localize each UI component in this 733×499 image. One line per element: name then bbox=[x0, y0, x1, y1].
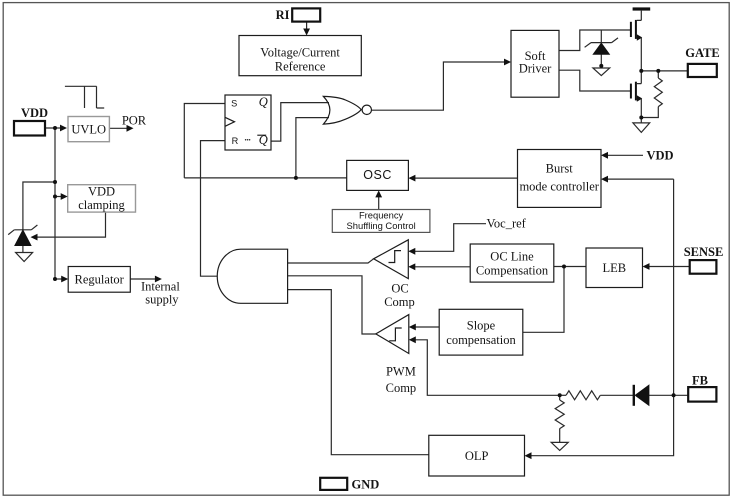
svg-text:GATE: GATE bbox=[685, 46, 720, 60]
svg-text:VDD: VDD bbox=[646, 148, 673, 162]
svg-text:Compensation: Compensation bbox=[476, 263, 549, 277]
svg-text:R: R bbox=[232, 136, 239, 146]
svg-text:POR: POR bbox=[122, 114, 147, 128]
svg-text:Regulator: Regulator bbox=[75, 273, 125, 287]
svg-text:Internal: Internal bbox=[141, 280, 180, 294]
svg-text:OC: OC bbox=[391, 282, 408, 296]
svg-text:VDD: VDD bbox=[21, 106, 48, 120]
svg-text:supply: supply bbox=[145, 293, 179, 307]
svg-text:VDD: VDD bbox=[88, 185, 115, 199]
svg-text:SENSE: SENSE bbox=[684, 245, 724, 259]
svg-text:Voc_ref: Voc_ref bbox=[487, 217, 527, 231]
svg-text:PWM: PWM bbox=[386, 365, 416, 379]
svg-text:compensation: compensation bbox=[446, 333, 516, 347]
svg-text:Frequency: Frequency bbox=[359, 210, 404, 221]
svg-text:FB: FB bbox=[692, 373, 708, 387]
svg-text:Shuffling Control: Shuffling Control bbox=[347, 220, 416, 231]
svg-text:Driver: Driver bbox=[519, 62, 552, 76]
svg-text:Comp: Comp bbox=[384, 295, 415, 309]
svg-text:mode controller: mode controller bbox=[519, 180, 599, 194]
svg-text:Q: Q bbox=[259, 95, 268, 109]
svg-text:S: S bbox=[231, 98, 237, 108]
svg-text:OLP: OLP bbox=[465, 449, 489, 463]
svg-text:clamping: clamping bbox=[78, 198, 125, 212]
svg-text:Burst: Burst bbox=[546, 162, 574, 176]
svg-text:RI: RI bbox=[276, 8, 290, 22]
svg-text:OSC: OSC bbox=[363, 168, 392, 182]
svg-text:GND: GND bbox=[352, 478, 380, 492]
svg-text:Comp: Comp bbox=[386, 381, 417, 395]
svg-text:LEB: LEB bbox=[602, 261, 626, 275]
svg-text:Slope: Slope bbox=[467, 318, 496, 332]
svg-text:Reference: Reference bbox=[275, 60, 326, 74]
svg-text:Voltage/Current: Voltage/Current bbox=[260, 46, 340, 60]
svg-text:OC Line: OC Line bbox=[490, 249, 534, 263]
svg-text:UVLO: UVLO bbox=[71, 123, 106, 137]
